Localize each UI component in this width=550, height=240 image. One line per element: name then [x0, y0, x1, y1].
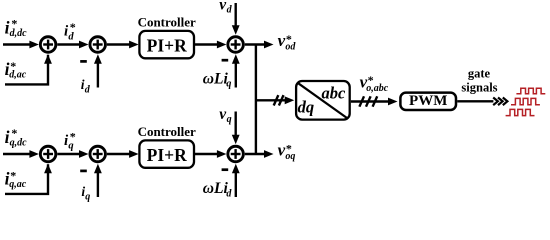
svg-text:q: q	[68, 140, 73, 151]
svg-text:PI+R: PI+R	[147, 35, 187, 55]
svg-text:d,dc: d,dc	[10, 28, 28, 39]
svg-text:PI+R: PI+R	[147, 145, 187, 165]
svg-text:q,ac: q,ac	[9, 179, 27, 190]
svg-text:dq: dq	[298, 98, 315, 117]
svg-text:PWM: PWM	[409, 93, 447, 109]
svg-text:q: q	[226, 79, 231, 90]
svg-text:signals: signals	[461, 81, 497, 95]
svg-text:d: d	[226, 188, 232, 199]
svg-text:v: v	[278, 31, 286, 50]
svg-text:ωLi: ωLi	[203, 180, 229, 197]
svg-text:o,abc: o,abc	[366, 83, 389, 94]
svg-text:oq: oq	[285, 151, 295, 162]
svg-text:abc: abc	[321, 83, 346, 102]
svg-text:od: od	[285, 42, 296, 53]
svg-text:gate: gate	[468, 66, 491, 80]
svg-text:Controller: Controller	[138, 14, 196, 29]
svg-text:ωLi: ωLi	[203, 71, 229, 88]
svg-text:Controller: Controller	[138, 124, 196, 139]
svg-text:d: d	[68, 31, 74, 42]
svg-text:d,ac: d,ac	[9, 70, 27, 81]
svg-text:d: d	[227, 4, 233, 15]
svg-text:q: q	[227, 114, 232, 125]
svg-text:d: d	[85, 85, 91, 96]
svg-text:v: v	[278, 140, 286, 159]
svg-text:q: q	[85, 191, 90, 202]
svg-text:q,dc: q,dc	[10, 138, 28, 149]
